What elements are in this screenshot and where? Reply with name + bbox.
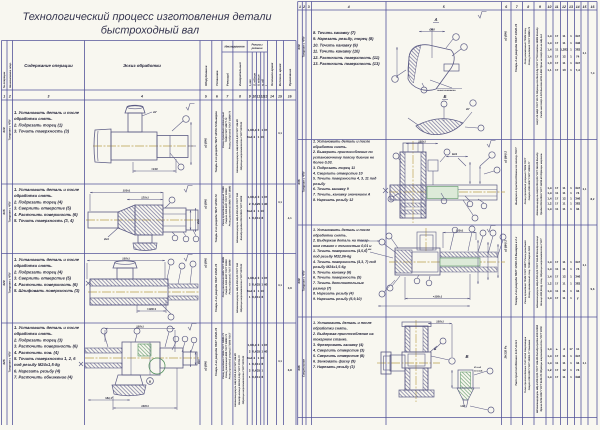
svg-text:Измерительный: Измерительный [238, 62, 242, 86]
svg-text:1,4: 1,4 [547, 375, 552, 379]
svg-text:10: 10 [562, 68, 566, 72]
svg-text:обработки снять.: обработки снять. [14, 331, 53, 336]
svg-text:17: 17 [555, 368, 559, 372]
left row4 balloons [101, 328, 107, 334]
svg-text:Токарная с ЧПУ: Токарная с ЧПУ [8, 351, 11, 372]
svg-text:1,4: 1,4 [547, 260, 552, 264]
svg-text:Калибр-пробка 8133-0904 ГОСТ 1: Калибр-пробка 8133-0904 ГОСТ 14810 [240, 195, 243, 240]
svg-text:3,1: 3,1 [583, 52, 587, 55]
svg-text:4: 4 [347, 5, 350, 9]
svg-text:№4: №4 [247, 289, 252, 293]
svg-text:9. Нарезать резьбу, торец (8): 9. Нарезать резьбу, торец (8) [313, 36, 374, 41]
svg-text:5. Точить канавку (6): 5. Точить канавку (6) [313, 270, 352, 274]
svg-text:17: 17 [555, 34, 559, 38]
svg-text:№ операции: № операции [3, 71, 6, 88]
svg-text:Штангенциркуль ШЦ-II-250-0,05: Штангенциркуль ШЦ-II-250-0,05 ГОСТ 166 [236, 262, 239, 313]
svg-text:размер (7): размер (7) [312, 286, 332, 290]
svg-text:Резец канавочный Т15К6 спец.: Резец канавочный Т15К6 спец. [524, 27, 527, 64]
left row1 roughness mark [186, 104, 195, 111]
svg-text:обработки снять.: обработки снять. [313, 233, 347, 237]
svg-text:1,4: 1,4 [547, 207, 552, 211]
svg-text:№4: №4 [247, 356, 252, 360]
svg-text:Основное время: Основное время [270, 62, 274, 86]
svg-text:37: 37 [264, 343, 268, 347]
right row3 balloons [386, 233, 392, 239]
svg-text:Токарь 2-го разряда ТВ2Т 1/П2: Токарь 2-го разряда ТВ2Т 1/П20-74 [214, 194, 218, 243]
svg-text:11: 11 [562, 186, 566, 190]
svg-text:Ø30: Ø30 [198, 359, 201, 364]
left page table grid [2, 40, 297, 42]
svg-text:13: 13 [569, 5, 573, 9]
right row1 roughness mark [478, 12, 487, 19]
svg-text:Штангенциркуль ШЦ-II-250-0,05: Штангенциркуль ШЦ-II-250-0,05 ГОСТ 166-8… [536, 235, 539, 308]
svg-text:1. Установить деталь и после: 1. Установить деталь и после [313, 321, 372, 325]
svg-text:5. Шлифовать поверхность (3): 5. Шлифовать поверхность (3) [14, 288, 80, 293]
svg-text:Резец канавочный спец. Т15К6: Резец канавочный спец. Т15К6 Сверло 2301 [528, 245, 531, 298]
svg-text:а3 (8Н): а3 (8Н) [203, 258, 207, 268]
svg-text:Штангенциркуль ШЦ-II-250-0,05: Штангенциркуль ШЦ-II-250-0,05 ГОСТ 166 [236, 192, 239, 243]
svg-text:8: 8 [527, 5, 529, 9]
svg-text:34: 34 [576, 289, 580, 293]
svg-text:3,1: 3,1 [278, 284, 282, 287]
left row3 balloons [168, 259, 174, 265]
svg-text:17: 17 [555, 296, 559, 300]
right row4 detail view В: center hole [458, 370, 473, 388]
svg-text:Токарь 2-го разряда ТВ2Т 1/П2: Токарь 2-го разряда ТВ2Т 1/П20-74 [214, 263, 218, 312]
right row3 roughness mark [487, 226, 496, 233]
svg-text:А: А [433, 17, 437, 22]
right row4 balloons [449, 358, 455, 364]
svg-text:3. Сверлить отверстие (5): 3. Сверлить отверстие (5) [14, 206, 72, 211]
left row4 sketch: shaft with lower boss, green features [85, 357, 199, 359]
svg-text:11: 11 [562, 354, 566, 358]
svg-text:25: 25 [257, 202, 261, 206]
svg-text:Пробка 8133-0904 ГОСТ 14810-69: Пробка 8133-0904 ГОСТ 14810-69 Образцы ш… [540, 153, 543, 215]
svg-text:030: 030 [297, 44, 301, 49]
svg-text:34: 34 [576, 207, 580, 211]
svg-text:Токарь 2-го разряда ТВ2Т 1/П: Токарь 2-го разряда ТВ2Т 1/П20-74 [514, 23, 518, 72]
svg-text:4. Расточить поверхность (6): 4. Расточить поверхность (6) [13, 212, 78, 217]
svg-text:3. Расточить поверхность (6): 3. Расточить поверхность (6) [14, 344, 78, 349]
svg-text:ь: ь [556, 347, 558, 351]
svg-text:1 мм: 1 мм [366, 248, 372, 251]
svg-text:под резьбу М24х1,5-8g: под резьбу М24х1,5-8g [14, 362, 60, 367]
svg-text:9: 9 [539, 5, 541, 9]
svg-text:40: 40 [264, 282, 268, 286]
svg-text:347: 347 [575, 34, 580, 38]
svg-text:11: 11 [257, 375, 261, 379]
svg-text:0,4: 0,4 [252, 276, 257, 280]
svg-text:11: 11 [562, 260, 566, 264]
left row1 dimensions [132, 162, 134, 173]
svg-text:Кольцо М32,06-6g спец. Образцы: Кольцо М32,06-6g спец. Образцы шероховат… [540, 238, 543, 306]
svg-text:3,1: 3,1 [583, 264, 587, 267]
svg-text:а3 (8Н) 2: а3 (8Н) 2 [504, 240, 508, 252]
svg-text:17: 17 [555, 41, 559, 45]
svg-text:17: 17 [555, 354, 559, 358]
svg-text:5. Точить поверхности 1, 2, 6: 5. Точить поверхности 1, 2, 6 [14, 356, 76, 361]
left row3 dimensions [86, 263, 88, 279]
right row1 detail view A: groove profile [408, 45, 454, 91]
svg-text:1,4: 1,4 [547, 191, 552, 195]
svg-text:40: 40 [264, 202, 268, 206]
svg-text:10. Точить канавку (9): 10. Точить канавку (9) [313, 42, 358, 47]
svg-text:Ø40: Ø40 [429, 28, 435, 32]
svg-text:Штангенциркуль ШЦ-II-250-0,05: Штангенциркуль ШЦ-II-250-0,05 ГОСТ 166-8… [536, 152, 539, 215]
svg-text:14: 14 [270, 95, 274, 99]
svg-text:37: 37 [264, 195, 268, 199]
svg-text:6,8: 6,8 [288, 368, 292, 372]
svg-text:0,4: 0,4 [252, 128, 257, 132]
svg-text:11: 11 [562, 202, 566, 206]
svg-text:14: 14 [576, 5, 580, 9]
svg-text:9. Нарезать резьбу (6,9,10): 9. Нарезать резьбу (6,9,10) [313, 297, 362, 301]
svg-text:установочному пояску биение не: установочному пояску биение не [312, 155, 374, 159]
svg-text:11: 11 [562, 289, 566, 293]
svg-text:150±1: 150±1 [123, 189, 131, 193]
svg-text:Оборудование: Оборудование [204, 65, 208, 86]
svg-text:5: 5 [205, 95, 207, 99]
svg-text:11: 11 [562, 41, 566, 45]
svg-text:346: 346 [575, 375, 580, 379]
svg-text:74: 74 [576, 368, 580, 372]
svg-text:№4: №4 [247, 209, 252, 213]
svg-text:045: 045 [297, 365, 301, 370]
svg-text:Токарная с ЧПУ: Токарная с ЧПУ [8, 272, 11, 293]
svg-text:74: 74 [576, 191, 580, 195]
svg-text:17: 17 [569, 347, 573, 351]
svg-text:3. Точить поверхность (3): 3. Точить поверхность (3) [14, 129, 70, 134]
svg-text:5. Точить поверхность (3, 4): 5. Точить поверхность (3, 4) [14, 218, 74, 223]
svg-text:1. Точить поверхность (4,5,6): 1. Точить поверхность (4,5,6) [313, 249, 368, 253]
svg-text:3: 3 [308, 5, 310, 9]
svg-text:6: 6 [505, 5, 507, 9]
svg-text:346: 346 [575, 274, 580, 278]
svg-text:4. Точить поверхность (4,3, 7): 4. Точить поверхность (4,3, 7) под [312, 260, 377, 264]
svg-text:Примечание: Примечание [288, 68, 292, 86]
svg-text:Вспомог. время: Вспомог. время [278, 63, 282, 86]
left row2 balloons [169, 197, 175, 203]
right row2 sketch: vertical workpiece in fixture [412, 141, 414, 223]
svg-text:Тиски приспособление 7х17-т1х1: Тиски приспособление 7х17-т1х1 Сверловщи… [524, 336, 527, 393]
svg-text:≈105±1: ≈105±1 [147, 307, 157, 311]
svg-text:Сверлильная: Сверлильная [302, 359, 305, 377]
svg-text:010: 010 [2, 127, 6, 132]
svg-text:5. Сверлить отверстие (8): 5. Сверлить отверстие (8) [313, 354, 365, 358]
svg-text:12: 12 [562, 5, 566, 9]
left row3 roughness mark [184, 255, 193, 262]
svg-text:3,1: 3,1 [583, 188, 587, 191]
svg-text:11: 11 [562, 191, 566, 195]
svg-text:1,282: 1,282 [560, 48, 568, 52]
svg-text:Токарная с ЧПУ: Токарная с ЧПУ [302, 171, 305, 192]
svg-text:3,1: 3,1 [278, 360, 282, 363]
svg-text:М24: М24 [452, 153, 458, 156]
svg-text:9,6: 9,6 [591, 287, 595, 291]
svg-text:3,1: 3,1 [278, 201, 282, 204]
svg-text:11: 11 [555, 48, 559, 52]
svg-text:25: 25 [257, 282, 261, 286]
svg-text:34: 34 [576, 361, 580, 365]
svg-text:1,4: 1,4 [547, 289, 552, 293]
svg-text:1,4: 1,4 [547, 361, 552, 365]
left row2 sketch: shaft with cone and threaded end [86, 219, 199, 221]
svg-text:ШЦ Р-20 ШЦ2 ГОСТ 28-73 Образцы: ШЦ Р-20 ШЦ2 ГОСТ 28-73 Образцы Ш-20х4,5-… [536, 27, 539, 125]
svg-text:обработки снять.: обработки снять. [14, 116, 53, 121]
svg-text:11: 11 [562, 282, 566, 286]
svg-text:n, об: n, об [260, 79, 264, 86]
svg-text:17: 17 [555, 68, 559, 72]
svg-text:8. Точить канавку (7): 8. Точить канавку (7) [313, 30, 356, 35]
svg-text:17: 17 [555, 202, 559, 206]
svg-text:12: 12 [562, 196, 566, 200]
svg-text:347: 347 [575, 260, 580, 264]
svg-text:1,4: 1,4 [547, 41, 552, 45]
svg-text:более 0,03.: более 0,03. [313, 161, 333, 165]
svg-text:4. Сверлить отверстие (3): 4. Сверлить отверстие (3) [312, 349, 365, 353]
svg-text:Резец расточной ВК8 ГОСТ 18882: Резец расточной ВК8 ГОСТ 18882 [228, 185, 231, 226]
right row2 roughness mark [487, 141, 496, 148]
svg-text:9: 9 [249, 95, 251, 99]
svg-text:125±1: 125±1 [141, 196, 149, 200]
svg-text:Сверло 2301-0057 ГОСТ 10903-77: Сверло 2301-0057 ГОСТ 10903-77 Зенковка [528, 339, 531, 390]
svg-text:8. Нарезать резьбу 12: 8. Нарезать резьбу 12 [313, 198, 353, 202]
svg-text:150±1: 150±1 [418, 140, 426, 144]
svg-text:17: 17 [555, 54, 559, 58]
svg-text:382: 382 [575, 48, 580, 52]
svg-text:12: 12 [562, 274, 566, 278]
left row1 sketch: stepped shaft with vertical boss [93, 145, 193, 147]
svg-text:346: 346 [575, 196, 580, 200]
svg-text:резания: резания [251, 47, 263, 50]
svg-text:В: В [465, 354, 468, 359]
svg-text:Токарь 2-го разряда ТВ2Т 1/П2: Токарь 2-го разряда ТВ2Т 1/П20-74 [214, 327, 218, 376]
svg-text:11: 11 [555, 267, 559, 271]
svg-text:16: 16 [591, 5, 595, 9]
right row4 sketch: vertical part with side flange [415, 320, 417, 402]
svg-text:Технологический процесс изгото: Технологический процесс изготовления дет… [22, 11, 271, 23]
svg-text:Образцы шероховатости ГОСТ 937: Образцы шероховатости ГОСТ 9378-93 [240, 263, 243, 312]
right row1 detail view Б: thread profile [416, 119, 463, 135]
svg-text:2. Подрезать торец (4): 2. Подрезать торец (4) [13, 199, 63, 204]
right page table grid [298, 1, 597, 3]
svg-text:15: 15 [278, 95, 282, 99]
svg-text:4,1: 4,1 [288, 216, 292, 220]
svg-text:025: 025 [2, 359, 6, 364]
svg-text:3. Сверлить отверстие (5): 3. Сверлить отверстие (5) [14, 276, 72, 281]
svg-text:1. Установить деталь и после: 1. Установить деталь и после [313, 228, 370, 232]
svg-text:резьбу: резьбу [312, 182, 326, 186]
right row2 balloons [393, 153, 399, 159]
svg-text:токарном станке.: токарном станке. [313, 338, 347, 342]
svg-text:6. Точить канавку 9: 6. Точить канавку 9 [313, 187, 349, 191]
svg-text:17: 17 [555, 260, 559, 264]
svg-text:0,4: 0,4 [252, 195, 257, 199]
svg-text:1,4: 1,4 [547, 296, 552, 300]
svg-text:11: 11 [257, 216, 261, 220]
svg-text:6. Точить поверхность (5): 6. Точить поверхность (5) [313, 276, 362, 280]
svg-text:150±1: 150±1 [141, 404, 149, 408]
svg-text:Резец подрезной ГОСТ 18880: Резец подрезной ГОСТ 18880 [228, 259, 231, 294]
svg-text:а3 (8Н) 2: а3 (8Н) 2 [504, 151, 508, 163]
svg-text:Наименование опер.: Наименование опер. [9, 62, 12, 88]
svg-text:8: 8 [239, 95, 241, 99]
svg-text:1,1: 1,1 [547, 68, 552, 72]
svg-text:17: 17 [555, 196, 559, 200]
svg-text:346: 346 [575, 41, 580, 45]
svg-text:11: 11 [555, 5, 559, 9]
svg-text:2. Выверить приспособление по: 2. Выверить приспособление по [312, 150, 374, 154]
svg-text:25: 25 [257, 369, 261, 373]
svg-text:5: 5 [443, 5, 445, 9]
svg-text:17: 17 [555, 61, 559, 65]
svg-text:2Н135 Рь: 2Н135 Рь [504, 345, 508, 359]
svg-text:37: 37 [264, 276, 268, 280]
svg-text:Токарная с ЧПУ: Токарная с ЧПУ [302, 270, 305, 291]
svg-text:1,2: 1,2 [547, 282, 552, 286]
svg-text:1,4: 1,4 [547, 186, 552, 190]
left row4 dimensions [105, 328, 175, 330]
svg-text:а3 (8Н): а3 (8Н) [203, 361, 207, 371]
svg-text:Фреза 2234-0357 ГОСТ 9140-78 О: Фреза 2234-0357 ГОСТ 9140-78 Образцы шер… [540, 326, 543, 412]
svg-text:1,0: 1,0 [547, 61, 552, 65]
svg-text:40: 40 [264, 349, 268, 353]
left row1 balloon 1 [183, 116, 190, 123]
svg-text:Резец проходной Т15К6 ГОСТ 188: Резец проходной Т15К6 ГОСТ 18877 Резец р… [524, 240, 527, 304]
svg-text:11: 11 [562, 296, 566, 300]
svg-text:Токарная с ЧПУ: Токарная с ЧПУ [8, 119, 11, 140]
svg-text:11: 11 [562, 361, 566, 365]
svg-text:382: 382 [575, 282, 580, 286]
svg-text:11: 11 [562, 207, 566, 211]
svg-text:020: 020 [2, 280, 6, 285]
svg-text:≈84,1°: ≈84,1° [105, 396, 114, 400]
svg-text:1,4: 1,4 [547, 48, 552, 52]
svg-text:150±1: 150±1 [436, 320, 444, 324]
svg-text:10: 10 [261, 356, 265, 360]
svg-text:обработки снять.: обработки снять. [313, 145, 347, 149]
svg-text:Образцы шероховатости ГОСТ 937: Образцы шероховатости ГОСТ 9378-93 [240, 121, 243, 170]
svg-text:1. Установить деталь и после: 1. Установить деталь и после [14, 187, 80, 192]
svg-text:Резец резьбовой ГОСТ 18885-73: Резец резьбовой ГОСТ 18885-73 [528, 26, 531, 65]
svg-text:4: 4 [140, 95, 143, 99]
svg-text:Б: Б [444, 94, 447, 99]
svg-text:347: 347 [575, 186, 580, 190]
svg-text:13: 13 [264, 95, 268, 99]
svg-text:1,4: 1,4 [547, 267, 552, 271]
svg-text:Штангенциркуль ШЦ-II-250-0,05: Штангенциркуль ШЦ-II-250-0,05 ГОСТ 166-8… [536, 324, 539, 413]
svg-text:6: 6 [216, 95, 218, 99]
svg-text:10: 10 [261, 135, 265, 139]
svg-text:Штангенциркуль ШЦ-II-250-0,05: Штангенциркуль ШЦ-II-250-0,05 ГОСТ 166-8… [234, 353, 237, 407]
svg-text:10: 10 [261, 289, 265, 293]
svg-text:7,4: 7,4 [591, 71, 595, 75]
svg-text:74: 74 [576, 267, 580, 271]
svg-text:74: 74 [576, 54, 580, 58]
svg-text:Калибр-кольцо М24х1,5-8g ГОСТ: Калибр-кольцо М24х1,5-8g ГОСТ 17763-72 [238, 355, 241, 405]
svg-text:Сверло 2301-0057 ГОСТ 10903-77: Сверло 2301-0057 ГОСТ 10903-77 [528, 161, 531, 200]
svg-text:линия контакта: линия контакта [436, 89, 456, 92]
right row3 sketch: horizontal assembly with cap [389, 261, 505, 263]
svg-text:347: 347 [575, 61, 580, 65]
svg-text:1,4: 1,4 [547, 347, 552, 351]
svg-text:а3 (8Н): а3 (8Н) [504, 31, 508, 41]
svg-text:1,4: 1,4 [547, 34, 552, 38]
svg-text:1. Установить деталь и после: 1. Установить деталь и после [14, 257, 80, 262]
svg-text:Токарь 2-го разряда ТВ2Т 1/П2: Токарь 2-го разряда ТВ2Т 1/П20-74 Выверк… [214, 111, 218, 173]
svg-text:быстроходный вал: быстроходный вал [101, 25, 199, 37]
svg-text:Эскиз обработки: Эскиз обработки [123, 63, 161, 68]
svg-text:5. Точить поверхности 4, 3, 11: 5. Точить поверхности 4, 3, 11 под [313, 177, 377, 181]
svg-text:13. Расточить поверхность (13: 13. Расточить поверхность (13) [313, 61, 380, 66]
svg-text:11: 11 [562, 267, 566, 271]
svg-text:1. Установить деталь и после: 1. Установить деталь и после [14, 325, 80, 330]
svg-text:040: 040 [297, 278, 301, 283]
svg-text:8,2: 8,2 [591, 197, 595, 201]
svg-text:≈105±1: ≈105±1 [433, 295, 443, 299]
svg-text:11: 11 [257, 362, 261, 366]
svg-text:11: 11 [576, 347, 580, 351]
svg-text:≈150: ≈150 [151, 167, 158, 171]
svg-text:а3 (8Н): а3 (8Н) [203, 199, 207, 209]
right row4 detail В balloons [487, 368, 493, 374]
svg-text:обработки снять.: обработки снять. [14, 193, 53, 198]
svg-text:12: 12 [562, 54, 566, 58]
svg-text:Ø п.об: Ø п.об [474, 366, 482, 369]
svg-text:16: 16 [288, 95, 292, 99]
svg-text:17: 17 [555, 274, 559, 278]
svg-text:10: 10 [261, 209, 265, 213]
svg-text:t, мм: t, мм [248, 78, 252, 86]
svg-text:Ø35: Ø35 [197, 219, 200, 224]
svg-text:1,4: 1,4 [547, 274, 552, 278]
left row2 dimensions [89, 194, 91, 211]
svg-text:обработки снять.: обработки снять. [14, 263, 53, 268]
svg-text:Тшт приспособление 1х17-т1х1: Тшт приспособление 1х17-т1х1 [514, 340, 518, 386]
svg-text:1,4: 1,4 [547, 354, 552, 358]
svg-text:3. Фрезеровать канавку (4): 3. Фрезеровать канавку (4) [313, 343, 364, 347]
svg-text:6. Нарезать резьбу (4): 6. Нарезать резьбу (4) [14, 368, 61, 373]
svg-text:2. Выдержав приспособление на: 2. Выдержав приспособление на [312, 332, 374, 336]
svg-text:Резец подрезной ГОСТ 18880-73: Резец подрезной ГОСТ 18880-73 [228, 110, 231, 149]
svg-text:11: 11 [555, 289, 559, 293]
svg-text:Резец проходной упорный Т15К6: Резец проходной упорный Т15К6 ГОСТ [228, 332, 231, 379]
svg-text:4. Сверлить отверстие 10: 4. Сверлить отверстие 10 [312, 171, 363, 175]
svg-text:под резьбу М32,06-6g: под резьбу М32,06-6g [313, 255, 352, 259]
svg-text:Режущий: Режущий [226, 73, 230, 86]
svg-text:2. Подрезать торец (3): 2. Подрезать торец (3) [13, 337, 63, 342]
svg-text:150±1: 150±1 [122, 257, 130, 261]
svg-text:11: 11 [555, 191, 559, 195]
svg-text:11: 11 [555, 361, 559, 365]
svg-text:015: 015 [2, 209, 6, 214]
svg-text:12. Расточить поверхность (11: 12. Расточить поверхность (11) [313, 55, 380, 60]
svg-text:1. Установить деталь и после: 1. Установить деталь и после [14, 110, 80, 115]
svg-text:4. Расточить поверхность (6): 4. Расточить поверхность (6) [13, 282, 78, 287]
svg-text:3,1: 3,1 [278, 132, 282, 135]
svg-text:1,2: 1,2 [547, 368, 552, 372]
svg-text:3. Подрезать торец 11: 3. Подрезать торец 11 [313, 166, 355, 170]
svg-text:25: 25 [257, 349, 261, 353]
svg-text:Токарная с ЧПУ: Токарная с ЧПУ [302, 36, 305, 57]
svg-text:17: 17 [555, 375, 559, 379]
svg-text:2: 2 [302, 5, 305, 9]
svg-text:15: 15 [583, 5, 587, 9]
svg-text:1,2: 1,2 [547, 202, 552, 206]
left row1 balloon 2 [178, 164, 184, 170]
svg-text:Инструмент: Инструмент [224, 45, 244, 49]
svg-text:11: 11 [562, 375, 566, 379]
